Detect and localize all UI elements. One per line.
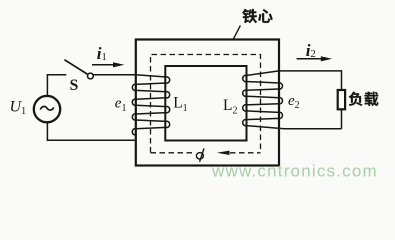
pointer line from iron-core label to core [233,25,240,39]
switch S lever [64,60,87,75]
wire: load bottom stub [341,109,343,128]
switch S contact circle [88,73,94,79]
secondary winding L2 (4 turns, exits right to load) [243,71,342,129]
wire: secondary top to load [279,71,342,90]
flux path phi (dashed), bottom side segments [151,152,261,154]
load resistor rectangle [338,90,345,109]
label iron-core (tie xin) glyph 心 [258,9,272,23]
flux path phi (dashed), left+top+right sides [151,55,261,153]
label iron-core (tie xin) glyph 铁 [242,9,257,23]
AC source U1 circle [34,96,60,122]
iron core outer outline [136,40,279,166]
wire: primary bottom return to U1 [47,122,135,140]
primary winding L1 (wire from switch into coil, 4 turns) [93,75,169,141]
iron core window (inner outline) [165,66,246,141]
AC source U1 tilde symbol [40,106,54,110]
label load (fu zai) glyph 载 [364,92,378,106]
wire: U1 top to switch [47,75,66,96]
svg-text:www.cntronics.com: www.cntronics.com [211,162,378,181]
label phi (flux) [196,148,204,162]
current arrow i2 [297,56,333,61]
current arrow i1 [92,62,124,67]
label load (fu zai) glyph 负 [349,92,363,106]
svg-text:S: S [70,77,79,94]
flux direction arrowhead (left-pointing) [217,151,230,155]
